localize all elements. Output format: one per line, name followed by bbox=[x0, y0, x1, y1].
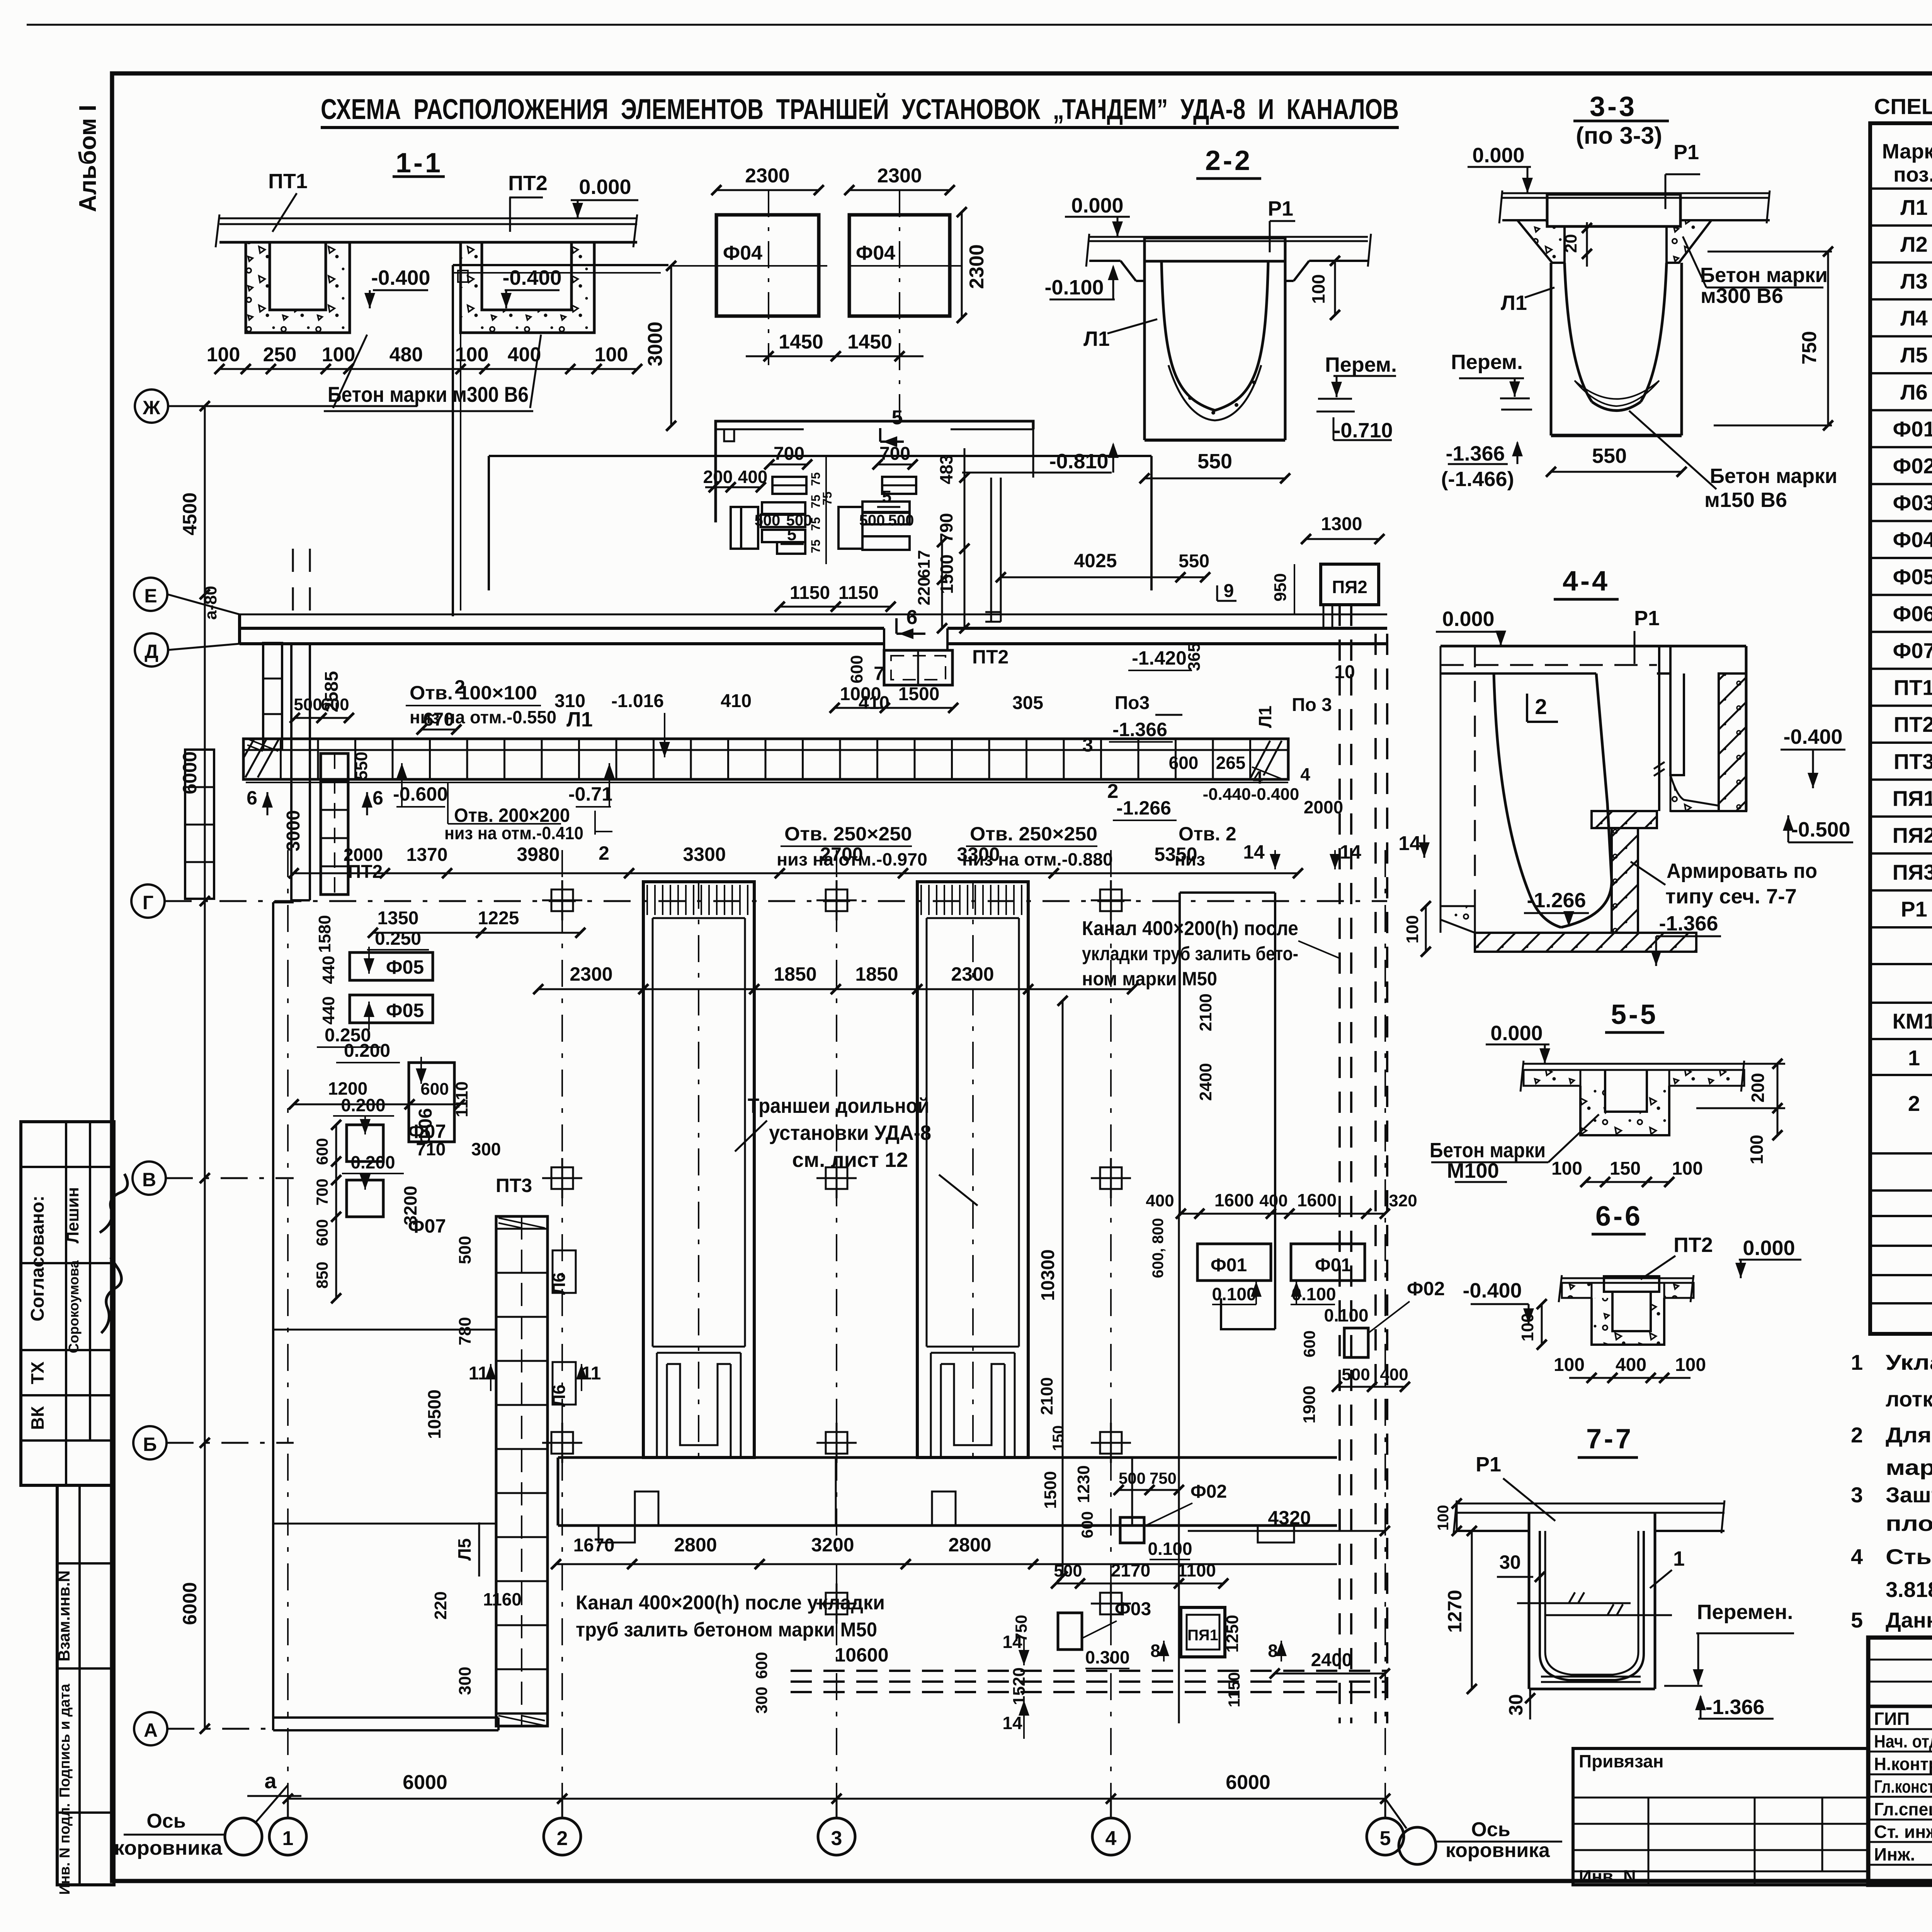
section 2-2 slab bbox=[1086, 234, 1371, 281]
svg-text:3-3: 3-3 bbox=[1590, 91, 1637, 122]
svg-text:Ф04: Ф04 bbox=[1893, 527, 1932, 552]
section 1-1 label ПТ2 bbox=[508, 172, 548, 232]
svg-text:1500: 1500 bbox=[898, 684, 940, 704]
svg-text:4: 4 bbox=[1105, 1827, 1117, 1850]
axis circle Ж bbox=[135, 389, 417, 423]
section 7-7 slab bbox=[1454, 1500, 1725, 1533]
svg-text:Данный лист см. с листом: Данный лист см. с листом 12. bbox=[1886, 1608, 1932, 1632]
section 7-7 label Р1 bbox=[1460, 1453, 1555, 1521]
svg-text:м150 В6: м150 В6 bbox=[1704, 488, 1787, 512]
main title underline bbox=[321, 126, 1399, 129]
svg-text:1450: 1450 bbox=[779, 331, 823, 353]
svg-text:Л4: Л4 bbox=[1900, 306, 1927, 330]
svg-text:1230: 1230 bbox=[1074, 1465, 1093, 1503]
svg-text:2300: 2300 bbox=[745, 165, 790, 187]
plan crosses row1 bbox=[542, 880, 1131, 1624]
svg-text:100: 100 bbox=[1554, 1355, 1585, 1375]
section 2-2 label Л1 bbox=[1083, 319, 1157, 350]
svg-text:Л3: Л3 bbox=[1900, 269, 1927, 293]
svg-text:0.200: 0.200 bbox=[344, 1041, 390, 1061]
svg-text:лотков.: лотков. bbox=[1886, 1387, 1932, 1411]
svg-text:Ф02: Ф02 bbox=[1190, 1481, 1227, 1502]
svg-text:500: 500 bbox=[456, 1236, 474, 1264]
svg-text:4: 4 bbox=[1851, 1544, 1863, 1569]
svg-text:14: 14 bbox=[1243, 841, 1265, 863]
svg-text:14: 14 bbox=[1398, 832, 1421, 855]
svg-text:5: 5 bbox=[1851, 1608, 1863, 1632]
svg-text:500: 500 bbox=[294, 695, 322, 714]
svg-text:5: 5 bbox=[892, 406, 903, 429]
svg-text:2: 2 bbox=[454, 676, 465, 698]
svg-text:По3: По3 bbox=[1115, 693, 1150, 713]
svg-text:600: 600 bbox=[1300, 1330, 1318, 1357]
section 1-1 label ПТ1 bbox=[268, 170, 308, 232]
plan bottom podium bbox=[558, 1458, 1337, 1543]
svg-text:-0.500: -0.500 bbox=[1791, 818, 1850, 841]
svg-text:0.000: 0.000 bbox=[579, 175, 631, 199]
plan dim row above ladder bbox=[417, 663, 1043, 757]
svg-text:9: 9 bbox=[1224, 581, 1234, 601]
svg-text:1500: 1500 bbox=[1041, 1471, 1060, 1509]
plan dim 4320 bbox=[1188, 1507, 1390, 1536]
svg-text:5350: 5350 bbox=[1154, 844, 1197, 865]
svg-text:-1.366: -1.366 bbox=[1112, 719, 1167, 740]
svg-text:-0.400: -0.400 bbox=[1251, 785, 1299, 804]
svg-text:400: 400 bbox=[1146, 1191, 1174, 1210]
plan canal rect right bbox=[1180, 893, 1275, 1329]
svg-text:Е: Е bbox=[144, 585, 157, 607]
section 2-2 title bbox=[1196, 145, 1261, 179]
svg-text:-1.366: -1.366 bbox=[1659, 912, 1718, 935]
svg-text:2700: 2700 bbox=[820, 844, 863, 865]
steps mark 6 bbox=[896, 606, 925, 639]
svg-text:600: 600 bbox=[1169, 753, 1199, 773]
section 2-2 dim 550 bbox=[1139, 450, 1290, 483]
section 2-2 label -0.100 bbox=[1044, 265, 1119, 299]
svg-text:6: 6 bbox=[372, 787, 383, 809]
svg-text:11: 11 bbox=[469, 1363, 488, 1384]
svg-text:2-2: 2-2 bbox=[1205, 145, 1252, 176]
svg-text:2000: 2000 bbox=[344, 845, 383, 865]
svg-text:2800: 2800 bbox=[948, 1534, 991, 1556]
svg-text:2100: 2100 bbox=[1037, 1377, 1056, 1415]
section 4-4 right pit bbox=[1670, 646, 1746, 811]
svg-text:2800: 2800 bbox=[674, 1534, 717, 1556]
svg-text:75: 75 bbox=[809, 517, 823, 531]
svg-text:ПТ3: ПТ3 bbox=[1894, 749, 1932, 774]
svg-text:2000: 2000 bbox=[1304, 797, 1343, 817]
section 2-2 label Перем bbox=[1316, 353, 1397, 412]
svg-text:2300: 2300 bbox=[570, 963, 612, 985]
svg-text:700: 700 bbox=[879, 444, 910, 464]
svg-text:-0.400: -0.400 bbox=[1463, 1279, 1522, 1302]
svg-text:100: 100 bbox=[1672, 1158, 1703, 1179]
svg-text:2: 2 bbox=[557, 1827, 568, 1850]
section 3-3 note Бетон М150 bbox=[1629, 411, 1837, 512]
plan dim 4025 550 top bbox=[996, 550, 1294, 614]
svg-text:30: 30 bbox=[1505, 1694, 1527, 1716]
section 3-3 funnel bbox=[1517, 220, 1711, 263]
svg-text:1200: 1200 bbox=[328, 1078, 367, 1099]
svg-text:Марка: Марка bbox=[1882, 140, 1932, 163]
section 2-2 label -0.710 bbox=[1333, 417, 1393, 442]
svg-text:300: 300 bbox=[752, 1687, 770, 1714]
title block roles bbox=[1874, 1709, 1932, 1865]
plan Ось коровника left bbox=[114, 1785, 288, 1859]
svg-text:-0.440: -0.440 bbox=[1203, 785, 1251, 804]
svg-text:ПТ2: ПТ2 bbox=[1673, 1233, 1713, 1257]
svg-text:Л2: Л2 bbox=[1900, 232, 1927, 256]
svg-text:300: 300 bbox=[456, 1667, 474, 1695]
section 4-4 title bbox=[1554, 566, 1619, 599]
svg-text:3300: 3300 bbox=[957, 844, 1000, 865]
svg-text:Альбом I: Альбом I bbox=[75, 105, 101, 212]
svg-text:Ф07: Ф07 bbox=[408, 1121, 446, 1142]
svg-text:1670: 1670 bbox=[573, 1535, 615, 1556]
section 5-5 label 0.000 bbox=[1486, 1022, 1550, 1064]
section 3-3 title bbox=[1573, 91, 1669, 149]
svg-text:А: А bbox=[144, 1719, 158, 1741]
spec row КМ1 bbox=[1893, 1009, 1932, 1033]
svg-text:Бетон марки: Бетон марки bbox=[1700, 264, 1828, 287]
svg-text:Взам.инв.N: Взам.инв.N bbox=[55, 1570, 73, 1662]
section 3-3 note Бетон М300 bbox=[1683, 236, 1828, 308]
svg-text:7-7: 7-7 bbox=[1586, 1423, 1633, 1454]
foundation Ф04 left square bbox=[670, 190, 827, 365]
plan right dashed axis walls bbox=[1340, 605, 1387, 1723]
plan ПЯ1 box bbox=[1150, 1607, 1390, 1708]
svg-text:а: а bbox=[264, 1769, 277, 1793]
plan edge channel strip upper bbox=[263, 643, 282, 750]
plan Ф06 box bbox=[336, 1041, 501, 1159]
section 4-4 label -1.366 bbox=[1651, 912, 1721, 966]
plan canal note upper right bbox=[1082, 917, 1340, 990]
spec table rows text bbox=[1893, 195, 1932, 921]
svg-text:а-80: а-80 bbox=[201, 586, 220, 620]
svg-text:ном марки М50: ном марки М50 bbox=[1082, 968, 1217, 990]
svg-text:поз.: поз. bbox=[1893, 163, 1932, 186]
svg-text:-0.710: -0.710 bbox=[1333, 419, 1393, 442]
svg-text:1: 1 bbox=[1673, 1547, 1685, 1570]
stamp table lower bbox=[57, 1485, 114, 1885]
svg-text:Ф06: Ф06 bbox=[1893, 601, 1932, 626]
svg-text:типу сеч. 7-7: типу сеч. 7-7 bbox=[1665, 885, 1797, 908]
svg-text:Сорокоумова: Сорокоумова bbox=[66, 1260, 82, 1353]
section 4-4 mark 2 bbox=[1527, 694, 1558, 722]
section 1-1 pit right bbox=[461, 242, 594, 333]
plan Ф02 box right bbox=[1037, 1278, 1445, 1538]
svg-text:5: 5 bbox=[1380, 1827, 1391, 1850]
spec row 2 уголок bbox=[1908, 1086, 1932, 1150]
svg-text:100: 100 bbox=[1403, 915, 1422, 943]
svg-text:320: 320 bbox=[1389, 1191, 1417, 1210]
svg-text:100: 100 bbox=[1308, 274, 1328, 304]
svg-text:1850: 1850 bbox=[774, 963, 816, 985]
svg-text:8: 8 bbox=[1268, 1641, 1278, 1661]
svg-text:2170: 2170 bbox=[1111, 1560, 1150, 1580]
svg-text:150: 150 bbox=[1050, 1425, 1067, 1451]
steps mark 5 top bbox=[880, 406, 904, 447]
svg-text:600: 600 bbox=[420, 1080, 449, 1099]
svg-text:700: 700 bbox=[774, 444, 804, 464]
svg-text:Ось: Ось bbox=[146, 1810, 185, 1832]
svg-text:Укладку канализационных труб: Укладку канализационных труб и трапов ве… bbox=[1886, 1350, 1932, 1374]
svg-text:Л6: Л6 bbox=[549, 1384, 569, 1407]
plan Л5 label bbox=[454, 1522, 479, 1577]
svg-text:600: 600 bbox=[313, 1138, 331, 1165]
section 5-5 channel bbox=[1580, 1070, 1669, 1135]
svg-text:3: 3 bbox=[831, 1827, 842, 1850]
svg-text:Стыки каналов навозоудаления: Стыки каналов навозоудаления выполнить п… bbox=[1886, 1544, 1932, 1569]
svg-text:-0.400: -0.400 bbox=[1783, 725, 1842, 748]
svg-text:0.000: 0.000 bbox=[1490, 1022, 1543, 1045]
steps dim 700 left bbox=[764, 444, 812, 469]
svg-text:В: В bbox=[142, 1169, 156, 1190]
svg-text:Д: Д bbox=[145, 641, 158, 662]
steps dim 1150 1150 bbox=[775, 583, 896, 612]
section 2-2 channel bbox=[1145, 238, 1285, 440]
notes paragraph bbox=[1851, 1350, 1932, 1632]
svg-text:3000: 3000 bbox=[644, 321, 667, 366]
svg-text:600: 600 bbox=[847, 655, 866, 683]
svg-text:Г: Г bbox=[143, 892, 153, 913]
svg-text:1850: 1850 bbox=[855, 963, 898, 985]
svg-text:600: 600 bbox=[313, 1219, 331, 1246]
plan bottom dashed canal bbox=[752, 1632, 1387, 1739]
svg-text:100: 100 bbox=[1675, 1355, 1706, 1375]
svg-text:5: 5 bbox=[787, 525, 796, 544]
plan Ось коровника right bbox=[1385, 1799, 1562, 1864]
section 7-7 dim 1270 bbox=[1444, 1526, 1477, 1694]
svg-text:550: 550 bbox=[1592, 444, 1627, 468]
svg-text:10500: 10500 bbox=[424, 1389, 444, 1439]
plan milking trench right bbox=[917, 882, 1028, 1458]
svg-text:Траншеи доильной: Траншеи доильной bbox=[748, 1094, 929, 1117]
svg-text:Подпись и дата: Подпись и дата bbox=[57, 1684, 73, 1798]
privyazan table bbox=[1573, 1748, 1868, 1886]
svg-text:Л1: Л1 bbox=[1501, 291, 1527, 315]
plan Л6 labels bbox=[469, 1250, 601, 1407]
plan dim row below ladder bbox=[289, 844, 1303, 878]
stamp signature scribbles bbox=[100, 1174, 128, 1333]
svg-text:ПТ1: ПТ1 bbox=[1894, 675, 1932, 700]
svg-text:установки УДА-8: установки УДА-8 bbox=[769, 1121, 931, 1145]
section 1-1 title bbox=[393, 148, 445, 179]
svg-text:2100: 2100 bbox=[1196, 993, 1215, 1031]
section 4-4 ground line bbox=[1440, 646, 1746, 933]
section 2-2 label -0.810 bbox=[962, 442, 1119, 473]
svg-text:600, 800: 600, 800 bbox=[1150, 1218, 1167, 1278]
foundation Ф04 dims bbox=[644, 165, 988, 431]
section 6-6 label ПТ2 bbox=[1641, 1233, 1713, 1279]
svg-text:400: 400 bbox=[1616, 1355, 1646, 1375]
plan axis dashed verticals bbox=[288, 850, 1385, 1799]
steps dims 500 bbox=[755, 487, 914, 544]
svg-text:СХЕМА РАСПОЛОЖЕНИЯ ЭЛЕМЕНТОВ: СХЕМА РАСПОЛОЖЕНИЯ ЭЛЕМЕНТОВ ТРАНШЕЙ УСТ… bbox=[321, 93, 1399, 125]
steps dim 200 400 bbox=[703, 467, 768, 492]
svg-text:1580: 1580 bbox=[315, 915, 334, 953]
svg-text:6: 6 bbox=[906, 606, 918, 629]
svg-text:Ф01: Ф01 bbox=[1315, 1255, 1351, 1276]
section 7-7 channel bbox=[1529, 1513, 1655, 1689]
svg-text:Л6: Л6 bbox=[549, 1272, 569, 1295]
svg-text:0.300: 0.300 bbox=[1085, 1647, 1129, 1667]
axis circle Г bbox=[131, 884, 1387, 918]
plan Ф01 boxes right bbox=[1146, 1190, 1417, 1723]
axis circle Б bbox=[133, 1426, 294, 1459]
steps group left bbox=[731, 477, 806, 554]
plan ladder left riser bbox=[321, 753, 348, 895]
svg-text:400: 400 bbox=[1380, 1365, 1408, 1384]
section 4-4 label Р1 bbox=[1634, 607, 1660, 664]
svg-text:ПЯ1: ПЯ1 bbox=[1187, 1627, 1218, 1644]
svg-text:2400: 2400 bbox=[1196, 1063, 1215, 1101]
svg-text:0.100: 0.100 bbox=[1148, 1539, 1192, 1559]
svg-text:365: 365 bbox=[1185, 643, 1204, 671]
svg-text:Канал 400×200(h) после: Канал 400×200(h) после bbox=[1082, 917, 1298, 940]
svg-text:3: 3 bbox=[1082, 734, 1093, 756]
svg-text:480: 480 bbox=[389, 344, 423, 366]
svg-text:4320: 4320 bbox=[1268, 1507, 1311, 1529]
section 4-4 label -0.400 bbox=[1781, 725, 1845, 788]
section 7-7 title bbox=[1578, 1423, 1638, 1458]
plan Ф02 box lower bbox=[1120, 1481, 1227, 1560]
section 5-5 note Бетон М100 bbox=[1430, 1114, 1599, 1182]
svg-text:-1.016: -1.016 bbox=[611, 691, 664, 711]
svg-text:780: 780 bbox=[456, 1317, 474, 1345]
section 6-6 label -0.400 bbox=[1463, 1279, 1534, 1324]
svg-text:Р1: Р1 bbox=[1901, 897, 1927, 921]
svg-text:ВК: ВК bbox=[27, 1406, 48, 1430]
plan bottom-left building edge bbox=[273, 902, 498, 1730]
plan trench inner equipment right bbox=[931, 1353, 1015, 1458]
svg-text:850: 850 bbox=[313, 1262, 331, 1289]
svg-text:Армировать по: Армировать по bbox=[1667, 859, 1817, 883]
svg-text:Ф01: Ф01 bbox=[1211, 1255, 1247, 1276]
svg-text:10300: 10300 bbox=[1038, 1249, 1058, 1301]
svg-text:1000: 1000 bbox=[840, 684, 881, 704]
section 6-6 label 0.000 bbox=[1735, 1236, 1801, 1278]
svg-text:коровника: коровника bbox=[114, 1837, 223, 1859]
svg-text:ПТ3: ПТ3 bbox=[496, 1175, 532, 1196]
svg-text:Ф03: Ф03 bbox=[1115, 1599, 1151, 1619]
svg-text:3.818.9-2 вып. 6.: 3.818.9-2 вып. 6. bbox=[1886, 1577, 1932, 1602]
spec table grid bbox=[1870, 123, 1932, 1334]
svg-text:Р1: Р1 bbox=[1634, 607, 1660, 630]
section 2-2 dim 100 bbox=[1308, 256, 1340, 320]
plan right vertical dims bbox=[1196, 993, 1215, 1101]
svg-text:0.000: 0.000 bbox=[1442, 607, 1494, 631]
svg-text:Ф05: Ф05 bbox=[1893, 565, 1932, 589]
svg-text:КМ1: КМ1 bbox=[1893, 1009, 1932, 1033]
plan ПЯ2 riser lines bbox=[1323, 605, 1332, 628]
svg-text:Инв. N подл.: Инв. N подл. bbox=[57, 1803, 73, 1895]
svg-text:3: 3 bbox=[1851, 1483, 1863, 1507]
svg-text:Н.контр.: Н.контр. bbox=[1874, 1754, 1932, 1774]
svg-text:-1.366: -1.366 bbox=[1705, 1696, 1764, 1719]
svg-text:6000: 6000 bbox=[179, 1582, 201, 1625]
plan edge channel strip lower bbox=[185, 750, 214, 899]
svg-text:1: 1 bbox=[1908, 1046, 1920, 1070]
section 3-3 label Л1 bbox=[1501, 287, 1554, 315]
svg-text:Л5: Л5 bbox=[454, 1538, 474, 1561]
svg-text:265: 265 bbox=[1216, 753, 1246, 773]
svg-text:1600: 1600 bbox=[1297, 1190, 1337, 1210]
svg-text:Ф04: Ф04 bbox=[723, 242, 762, 264]
svg-text:1370: 1370 bbox=[406, 845, 448, 865]
svg-text:250: 250 bbox=[263, 344, 297, 366]
svg-text:1900: 1900 bbox=[1300, 1386, 1319, 1423]
section 7-7 dim 30 bottom bbox=[1505, 1689, 1535, 1719]
section 2-2 label Р1 bbox=[1268, 197, 1295, 252]
svg-text:Инж.: Инж. bbox=[1874, 1844, 1915, 1864]
svg-text:100: 100 bbox=[322, 344, 355, 366]
svg-text:75: 75 bbox=[809, 539, 823, 553]
section 7-7 dim 30 top bbox=[1497, 1551, 1545, 1582]
section 3-3 dim 750 bbox=[1708, 247, 1833, 430]
svg-text:Перемен.: Перемен. bbox=[1697, 1600, 1793, 1624]
svg-text:3980: 3980 bbox=[517, 844, 560, 865]
plan Ф07 lower box bbox=[342, 1152, 446, 1237]
svg-text:Отв. 250×250: Отв. 250×250 bbox=[784, 823, 912, 845]
steps dims 75 column bbox=[809, 456, 834, 564]
plan Ф03 box bbox=[1010, 1560, 1228, 1705]
svg-text:500: 500 bbox=[888, 512, 914, 529]
svg-text:Привязан: Привязан bbox=[1579, 1751, 1664, 1771]
stamp table upper bbox=[21, 1122, 114, 1485]
section 6-6 dims bbox=[1518, 1299, 1706, 1383]
section 1-1 note Бетон марки М300 В6 bbox=[324, 335, 541, 411]
title block grid bbox=[1868, 1638, 1932, 1885]
svg-text:-1.266: -1.266 bbox=[1527, 889, 1586, 912]
svg-text:4-4: 4-4 bbox=[1563, 566, 1610, 597]
plan ПТ3 ladder strip bbox=[496, 1175, 548, 1726]
svg-text:Бетон марки: Бетон марки bbox=[1430, 1139, 1546, 1162]
svg-text:500: 500 bbox=[859, 512, 885, 529]
section 1-1 slab bbox=[216, 214, 637, 247]
svg-text:550: 550 bbox=[1197, 450, 1232, 473]
svg-text:ПТ2: ПТ2 bbox=[508, 172, 548, 195]
svg-text:75: 75 bbox=[820, 492, 834, 505]
svg-text:Р1: Р1 bbox=[1476, 1453, 1501, 1476]
svg-text:0.100: 0.100 bbox=[1212, 1284, 1256, 1304]
svg-text:-0.400: -0.400 bbox=[502, 266, 561, 289]
section 4-4 hatched walls bbox=[1440, 673, 1746, 952]
section 3-3 label -1.366 bbox=[1441, 441, 1523, 491]
section 3-3 label Р1 bbox=[1665, 141, 1700, 209]
svg-text:Перем.: Перем. bbox=[1325, 353, 1397, 376]
svg-text:1350: 1350 bbox=[378, 908, 419, 929]
section 4-4 cavity bbox=[1494, 673, 1612, 927]
svg-text:305: 305 bbox=[1012, 693, 1043, 713]
plan Ф07 upper box bbox=[289, 1078, 465, 1162]
svg-text:2300: 2300 bbox=[966, 244, 988, 289]
svg-text:коровника: коровника bbox=[1446, 1839, 1550, 1862]
svg-text:0.000: 0.000 bbox=[1071, 194, 1123, 217]
svg-text:ПТ2: ПТ2 bbox=[1894, 712, 1932, 736]
plan hole labels row bbox=[393, 682, 1236, 869]
spec row 1 сетка bbox=[1908, 1041, 1932, 1080]
svg-text:100: 100 bbox=[1435, 1505, 1452, 1531]
svg-text:Р1: Р1 bbox=[1673, 141, 1699, 164]
section 7-7 break line bbox=[1517, 1592, 1672, 1615]
svg-text:100: 100 bbox=[207, 344, 240, 366]
section 4-4 dim 100 bbox=[1403, 901, 1431, 957]
svg-text:3000: 3000 bbox=[283, 810, 304, 852]
svg-text:440: 440 bbox=[319, 956, 338, 984]
svg-text:410: 410 bbox=[721, 691, 752, 711]
svg-text:низ на отм.-0.410: низ на отм.-0.410 bbox=[444, 823, 583, 843]
